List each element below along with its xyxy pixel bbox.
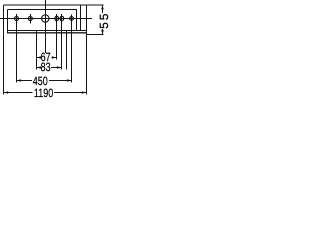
- extension line from hole C3 down to 450 dim: [71, 14, 73, 82]
- hole C2: [28, 17, 32, 21]
- screw hole S1: [55, 16, 59, 21]
- dimension 450 arrows: [17, 79, 22, 82]
- hole C3: [70, 17, 74, 21]
- outer body left edge + 1190 left extension line: [3, 5, 5, 94]
- extension line from hole C1 down to 450 dim: [16, 14, 18, 82]
- svg-text:83: 83: [41, 60, 51, 74]
- left extension line for 67/83 dims: [36, 31, 38, 70]
- extension line right of 83 dim: [66, 31, 68, 70]
- horizontal centerline: [0, 18, 92, 20]
- dimension 83 arrows: [37, 66, 42, 69]
- center vertical line through big hole: [45, 0, 47, 53]
- svg-text:55: 55: [97, 12, 111, 29]
- hole C1: [15, 17, 19, 21]
- dimension 450 line: [17, 80, 72, 82]
- dimension 67 arrows: [37, 56, 42, 59]
- screw S2 extension line down to 83 dim: [61, 14, 63, 70]
- outer body top edge + 55 top extension tick: [4, 4, 104, 6]
- big center hole: [42, 15, 49, 22]
- outer body right edge: [80, 5, 82, 30]
- crosshair tick hole C2: [30, 14, 32, 23]
- right end edge + 1190 right extension line: [86, 5, 88, 94]
- dimension 55 vertical line: [102, 5, 104, 34]
- svg-text:1190: 1190: [34, 86, 54, 100]
- screw S1 extension line down to 67 dim: [56, 14, 58, 60]
- dimension 55 arrows: [101, 5, 104, 9]
- inner panel right edge: [76, 10, 78, 31]
- inner panel top edge: [8, 9, 78, 11]
- dimension 1190 line: [4, 92, 87, 94]
- bottom rail top edge: [8, 30, 87, 32]
- bottom rail bottom edge: [8, 32, 87, 34]
- dimension 67 line: [37, 57, 57, 59]
- inner panel left edge: [7, 10, 9, 34]
- dimension 1190 arrows: [4, 91, 9, 94]
- dimension 83 line: [37, 67, 62, 69]
- bottom 55 extension tick: [87, 33, 104, 35]
- screw hole S2: [60, 16, 64, 21]
